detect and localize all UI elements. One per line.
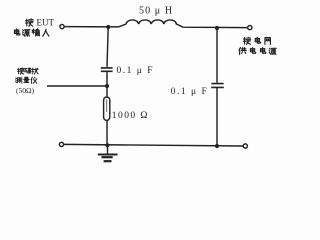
svg-text:0.1 μ F: 0.1 μ F <box>171 87 209 97</box>
svg-text:0.1 μ F: 0.1 μ F <box>117 66 155 76</box>
svg-text:1000 Ω: 1000 Ω <box>112 111 149 121</box>
svg-text:50 μ H: 50 μ H <box>139 5 173 16</box>
svg-text:EUT: EUT <box>37 17 55 27</box>
svg-text:(50Ω): (50Ω) <box>16 86 35 95</box>
